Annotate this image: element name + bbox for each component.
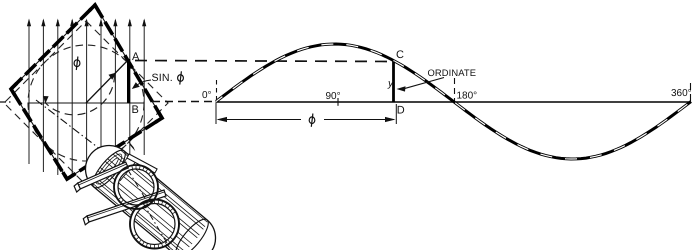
- ring 1 hatch ticks: [118, 165, 154, 209]
- ring 1 rim circles: [114, 165, 158, 209]
- drum rim white band: [113, 155, 136, 180]
- dashed tick above 0 deg: [216, 80, 218, 101]
- svg-text:y: y: [387, 78, 394, 90]
- ordinate leader arrowhead: [397, 86, 406, 91]
- tick at 180 deg: [454, 78, 456, 103]
- radius to point A: [86, 59, 129, 103]
- dimension tick below D: [395, 104, 397, 124]
- right arrowhead: [385, 117, 396, 122]
- svg-text:ORDINATE: ORDINATE: [428, 67, 477, 78]
- thick ordinate segment A-B: [127, 59, 130, 103]
- flux line 4: [71, 20, 73, 177]
- rotated coil square (thin underlay): [11, 5, 162, 179]
- drum surface hatching: [93, 150, 207, 250]
- dashed centre line from square to 0 deg: [152, 101, 214, 103]
- tick at 360 deg: [690, 83, 692, 102]
- flux line 5: [86, 20, 88, 177]
- axis centreline visible through ring 2: [143, 203, 170, 248]
- square corner joints: [11, 5, 162, 179]
- flux line 1: [28, 20, 30, 164]
- svg-text:A: A: [132, 51, 140, 63]
- long dashed line from A to C: [135, 61, 393, 62]
- label phi in circle: [74, 57, 80, 71]
- coil ring 2 annulus: [130, 200, 179, 249]
- ring 2 rim circles: [130, 200, 179, 249]
- drum far end cap ellipse: [171, 215, 213, 250]
- flux line 9: [143, 20, 145, 155]
- svg-text:SIN.: SIN.: [152, 72, 173, 84]
- horizontal axis 0 to 360: [216, 101, 692, 103]
- ring 2 hatch ticks: [133, 200, 175, 249]
- angle phi dashed arc: [46, 74, 115, 114]
- horizontal diameter: [28, 102, 144, 104]
- drum near end cap ellipse: [88, 146, 130, 192]
- sine curve white split overlay: [216, 44, 691, 159]
- svg-text:0°: 0°: [202, 90, 212, 101]
- flux line 2: [42, 20, 44, 172]
- armature drum coil axis dash-dot line: [36, 100, 208, 232]
- flux line 3: [57, 20, 59, 175]
- conductor bar 2: [87, 190, 166, 222]
- dashed circle (path of coil sides): [28, 45, 144, 161]
- drum cylinder body: [86, 146, 216, 250]
- flux line 6: [100, 20, 102, 174]
- dashed square (coil at 45 deg reference position): [4, 21, 168, 185]
- phi dimension arrow left part: [218, 119, 301, 121]
- svg-text:90°: 90°: [326, 91, 341, 102]
- svg-text:B: B: [132, 104, 139, 116]
- leader arrow for SIN phi: [136, 80, 152, 87]
- svg-text:180°: 180°: [457, 91, 478, 102]
- bar 1 cut end face: [74, 183, 80, 192]
- far side conductor band on drum top: [127, 154, 157, 173]
- ordinate leader curve: [404, 78, 444, 89]
- coil ring 1 annulus: [114, 165, 158, 209]
- axis centreline visible through ring 1: [128, 170, 148, 203]
- dash-dot centre line stub at far left: [0, 101, 12, 103]
- drum near end cap hatch: [93, 151, 126, 187]
- edge dash wedge above drum: [128, 141, 135, 152]
- flux line 8: [129, 20, 131, 162]
- conductor bar 1: [78, 162, 129, 189]
- dimension tick below 0 deg: [215, 103, 217, 124]
- svg-text:360°: 360°: [671, 88, 692, 99]
- label phi dimension: [309, 114, 315, 127]
- flux lines (magnetic field, vertical arrows): [27, 19, 146, 178]
- arc arrowhead at horizontal end: [43, 96, 48, 104]
- tick at 90 deg: [337, 98, 339, 106]
- bar 2 cut end face: [83, 216, 89, 225]
- svg-text:D: D: [397, 105, 405, 117]
- svg-text:C: C: [396, 49, 404, 61]
- ordinate C-D thick segment: [392, 62, 395, 103]
- left arrowhead: [217, 117, 228, 122]
- flux line 7: [114, 20, 116, 168]
- phi dimension arrow right part: [324, 119, 394, 121]
- rotated coil square (thick dashes): [11, 5, 162, 179]
- arc arrowhead at radius end: [109, 73, 117, 80]
